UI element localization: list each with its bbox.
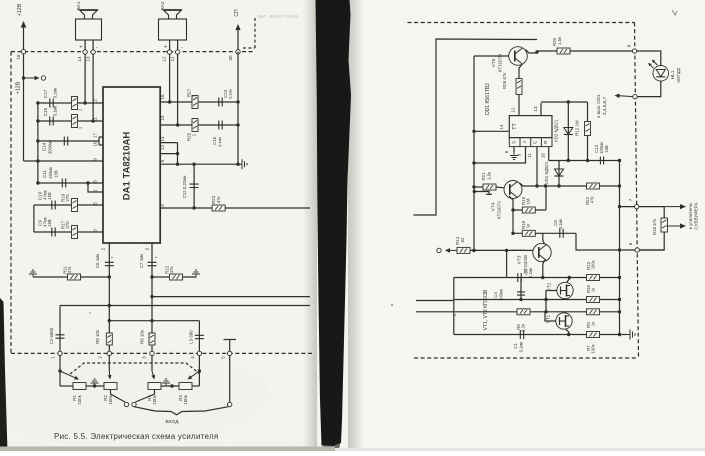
pot rail 3 [151,356,153,371]
junction row1017 rail [36,139,39,142]
terminal6 row wire [620,249,665,251]
capacitor C1 [520,330,523,339]
capacitor C15 [50,117,53,126]
junction R11 c6rail [108,275,111,278]
resistor R26 right page [516,79,522,95]
R16 row wire [513,209,546,211]
R15 bottom wire [639,232,664,250]
terminal 18 on border [21,49,25,53]
VT4 emitter to R14 row link [506,250,508,277]
junction c13row vd2 [567,159,570,162]
transistor VT5 [509,47,528,66]
left page edge black wedge [0,298,8,451]
capacitor C17 [50,99,53,108]
VT2 gate wire [546,291,557,312]
bottom page-edge gray strip [0,447,335,452]
pot rail 2 [108,356,110,371]
pot rail right [198,356,200,386]
LED top wire [637,51,661,66]
gutter stub line B [416,300,454,302]
flip-flop cells row [509,138,552,147]
J cell wire [474,147,526,163]
resistor R9 [587,309,600,315]
potentiometer R3 [148,383,161,390]
input jack right [132,402,136,406]
emitter down wire [512,210,514,234]
capacitor C16 [219,121,222,130]
row pin4 wire [160,207,310,209]
flip-flop U DD1 K561TV2 body [509,116,552,138]
BA1 left terminal 14 [83,50,87,54]
junction pin5 gnd [236,163,239,166]
C2 vertical [59,306,61,354]
terminal7 row wire [620,206,665,208]
capacitor C8 [560,229,563,238]
junction rail term7 [618,205,621,208]
row pin15 wire [160,124,238,126]
bottom terminal 2 [107,351,111,355]
junction rowB c4 [519,298,522,301]
LED emission arrow 1 [654,62,657,65]
subwoofer wiper arrow [668,225,681,227]
R cell wire [548,147,550,161]
R1-R2 link [86,385,104,387]
resistor R27 [192,96,198,109]
terminal5 lower wire [229,356,231,403]
junction row8 rail [36,181,39,184]
R3 wiper arrow [152,371,153,375]
bottom terminal 3 [150,351,154,355]
resistor R11 [68,274,81,280]
junction row16 ba2a [168,100,171,103]
bottom terminal 5 [228,351,232,355]
dashed border left (left page) [10,52,12,354]
junction rowD vt1 [567,333,570,336]
transistor VT1 [556,313,572,329]
junction pin13 vd2 [567,100,570,103]
row pin5-right wire [160,163,238,165]
junction R18 row [511,232,514,235]
junction L3 top mid [150,319,153,322]
row B wire [454,299,620,301]
R21 lower stub bar [486,193,492,195]
BA1 lead left [84,40,86,103]
junction L3 top left [108,319,111,322]
resistor R6 [149,333,155,345]
left page mottling [0,345,270,445]
touch terminal E1 [437,248,441,252]
pin13 stub [160,153,177,155]
ground end of row D [626,330,635,340]
junction rowB gate [544,298,547,301]
ground between R3 R4 [162,379,170,386]
resistor R12 right page [585,122,591,136]
C12 vertical wire [193,164,195,208]
LED bottom wire [637,81,661,97]
transistor VT3 [533,243,551,261]
resistor R7 [587,332,600,338]
resistor R24 [72,115,78,128]
row pin5-left wire [34,204,103,206]
junction +12V at arrow branch [22,76,25,79]
row pin11 wire [38,120,103,122]
pin13 stub wire [540,103,542,116]
junction rowC gate [544,310,547,313]
junction pot right branch [198,369,201,372]
R20 row wire [537,50,632,52]
left coupling rail [37,103,39,183]
resistor R8 [517,309,530,315]
left edge vertical [453,278,455,335]
junction VT5 collector [535,50,538,53]
VT5 emitter wire [519,64,523,78]
BA2 lead right [177,40,179,125]
VT4 emitter wire [509,196,513,210]
row A wire [454,277,620,279]
dashed border top (left page) [11,51,255,53]
resistor R5 [106,333,112,345]
C13 row wire [549,160,620,162]
terminal5 upper stub [229,340,231,352]
right common rail [237,52,239,164]
gutter stub line C [416,311,454,313]
speaker BA2 [159,10,187,40]
LED emission arrow 2 [651,65,654,68]
+12V arrow head [21,21,27,28]
capacitor C7 [148,262,157,265]
junction pin5 bracket [176,163,179,166]
R1 wiper arrow [60,371,75,378]
junction c13row r12 [586,159,589,162]
R21 lower stub wire [474,192,489,195]
terminal 30 on border [236,50,240,54]
capacitor C6 [105,262,114,265]
resistor R19 [72,199,78,212]
resistor R25 [192,119,198,132]
R1 left wire [60,385,73,387]
pin10 stub [99,144,103,146]
VT3 collector wire [543,233,545,244]
LED HL1 [653,66,669,82]
VD2 vertical wire [567,102,569,161]
R16 up wire [545,186,547,210]
VT2 source wire [566,299,568,300]
row pin12 wire [38,102,103,104]
resistor R20 [557,48,570,54]
junction row12 ba1a [83,101,86,104]
dashed border top (right page) [408,22,635,24]
junction row15 ba2b [176,123,179,126]
scan speck 2 [391,304,393,306]
junction coll row r16 [544,184,547,187]
test point circle [41,76,45,80]
BA2 right terminal 11 [175,50,179,54]
bottom terminal 1 [58,351,62,355]
junction emitter row [511,208,514,211]
op-amp U DA1 TA8210AH body [103,87,160,243]
gang dashed link [70,363,200,374]
VT4 collector row [537,185,620,187]
resistor R26 left [72,97,78,110]
potentiometer R15 [661,218,668,232]
junction row4 c12 [192,206,195,209]
C6 vertical from pin2 [108,243,110,353]
junction rail R21 stub [473,190,476,193]
capacitor C4 [517,292,525,295]
junction row12 rail [36,101,39,104]
dashed corner right of SP terminal [254,18,256,48]
junction rail pin14 [472,130,475,133]
VT3 emitter wire [543,260,545,278]
junction rail R21 [472,185,475,188]
scan speck 1 [454,314,456,316]
junction R14 rail [472,249,475,252]
ground right of pin5 row [238,159,247,169]
R2 wiper arrow [108,371,110,375]
input jack common [228,402,232,406]
resistor R18 [522,230,535,236]
junction row9 rail [36,159,39,162]
R12 wire [152,276,197,278]
VT1 source wire [566,329,569,335]
potentiometer R1 [73,383,86,390]
resistor R21 [483,184,496,190]
junction VT3 emitter row A [541,276,544,279]
junction rail rowA [618,276,621,279]
ground below S cell [510,153,518,160]
pin13-14 down wire [177,143,179,165]
central black gutter band [316,0,352,447]
resistor R13 [587,275,600,281]
R2 bottom to jack [111,390,126,403]
VT3 base wire [510,249,534,251]
resistor R22 [587,183,600,189]
long line 1 [152,296,310,298]
resistor R12 left page [170,274,183,280]
dashed border right (right page) [635,23,639,359]
R4 right wire [192,385,199,387]
VT5 collector wire [526,50,538,54]
R14 arrow [450,249,457,251]
junction rail coll row [618,184,621,187]
resistor R16 [522,207,535,213]
C8 to rail wire [576,233,620,250]
+12V rail mid segment [23,54,25,161]
VT1 gate wire [545,312,556,321]
junction pin5 c12 [192,163,195,166]
R12 vertical wire [587,102,589,161]
junction row11 rail [36,119,39,122]
potentiometer R4 [179,383,192,390]
diode VD2 [564,128,573,135]
R3 bottom to jack [136,390,155,403]
capacitor C5 [518,273,521,282]
input common curve [134,407,229,415]
diode VD1 [555,169,564,176]
transistor VT4 [504,181,522,199]
dashed border bottom (right page) [414,357,638,359]
VD1 vertical wire [558,161,560,187]
BA1 lead right [92,40,94,121]
junction rail rowC [618,310,621,313]
terminal 8 [632,49,636,53]
SP line [237,29,239,52]
junction rail c8 [618,248,621,251]
junction R12 c7rail [150,275,153,278]
branch arrow to test point [24,77,35,79]
SP arrow head [235,24,240,30]
junction rowA vt2drain [568,276,571,279]
S cell stub [513,147,515,153]
potentiometer R2 [104,383,117,390]
ground left of R11 [29,270,37,277]
capacitor C13 left page [219,98,222,107]
junction coll row c-cell [535,184,538,187]
junction coll row vd1 [557,184,560,187]
right rail [619,161,621,335]
row pin3 wire [34,231,103,233]
ground between R1 R2 [91,379,99,386]
resistor R14 [457,247,470,253]
pin10-17 bracket [98,137,100,145]
terminal5 top bar [224,339,237,341]
BA1 right terminal 13 [91,50,95,54]
pin12 stub wire [518,95,520,116]
resistor R10 [587,297,600,303]
pin14 stub wire [474,130,509,132]
ground right of R12 [192,270,200,277]
subwoofer top arrow [664,206,680,208]
L3 vertical [198,321,200,354]
junction row16 rail [236,100,239,103]
BA2 left terminal 12 [167,50,171,54]
junction rail R14 row [472,249,475,252]
row D wire [454,334,626,336]
L3 top wire [109,320,199,322]
dashed border bottom pins line (left page) [11,352,312,354]
capacitor C14 [64,137,67,146]
junction line1 start [150,295,153,298]
junction R3R4 link [170,384,173,387]
paper noise overlay [0,0,1,1]
bottom terminal 4 [197,351,201,355]
pin1 bracket [88,183,103,192]
R21 to VT4 base [474,186,483,188]
junction line2 start [108,304,111,307]
terminal on dashed k DD1 [633,94,637,98]
junction row11 ba1b [91,119,94,122]
R21 right to VT4 base [496,186,504,189]
scan speck 3 [89,312,91,314]
VT2 drain wire [567,278,570,283]
C cell wire [536,147,538,186]
terminal 6 [635,248,639,252]
+12V rail top segment [23,25,25,52]
transistor VT2 [557,282,573,298]
dashed corner horizontal into border [243,47,255,49]
R15 top wire [663,207,665,218]
input L wire from gutter [414,39,538,215]
pin14 stub [160,142,177,144]
VT1 drain wire [565,312,567,313]
capacitor C10 [52,201,55,210]
row C wire [454,311,620,313]
main left rail right page [473,56,475,250]
terminal 7 [635,204,639,208]
R3-R4 link [161,385,179,387]
junction rail rowD [618,333,621,336]
pin17 stub [99,136,103,138]
row pin10-17 wire [38,140,99,142]
pin13 top wire [541,101,588,103]
junction rail rowB [618,298,621,301]
row pin9 wire [24,160,104,162]
R14 row wire [470,249,525,251]
C9 C10 common vertical [33,205,35,232]
C4 vertical wire [520,278,522,300]
row pin8 wire [38,182,103,184]
small pen mark top right [672,10,677,15]
junction pin1 bracket [86,181,89,184]
input jack left [124,402,128,406]
VT4 collector wire [520,183,538,186]
junction pin13 stub [176,152,179,155]
junction rail c13row [618,159,621,162]
capacitor C9 [52,228,55,237]
gutter band bottom fade [322,443,341,449]
inductor L3 символ [195,335,204,338]
resistor R17 [72,226,78,239]
speaker BA1 [76,10,102,40]
junction pot left branch [58,369,61,372]
long line 2 [60,305,310,307]
junction rail Jcell [472,161,475,164]
R11 wire [33,276,109,278]
R4 wiper arrow [191,371,199,377]
capacitor C2 [56,335,65,338]
capacitor C12 [190,184,199,187]
R18 row wire [513,232,576,234]
row pin16 wire [160,101,238,103]
junction R1R2 link [93,384,96,387]
VT5 base wire [474,55,509,57]
C7 vertical from pin2b [151,243,153,353]
resistor R23 [212,205,225,211]
junction row15 rail [236,123,239,126]
pot rail left [59,356,61,386]
k vyv DD1 arrow [620,95,633,98]
capacitor C11 [62,179,65,188]
capacitor C13 right page [600,157,603,165]
BA2 lead left [169,40,171,102]
junction R14 vt3base [505,249,508,252]
